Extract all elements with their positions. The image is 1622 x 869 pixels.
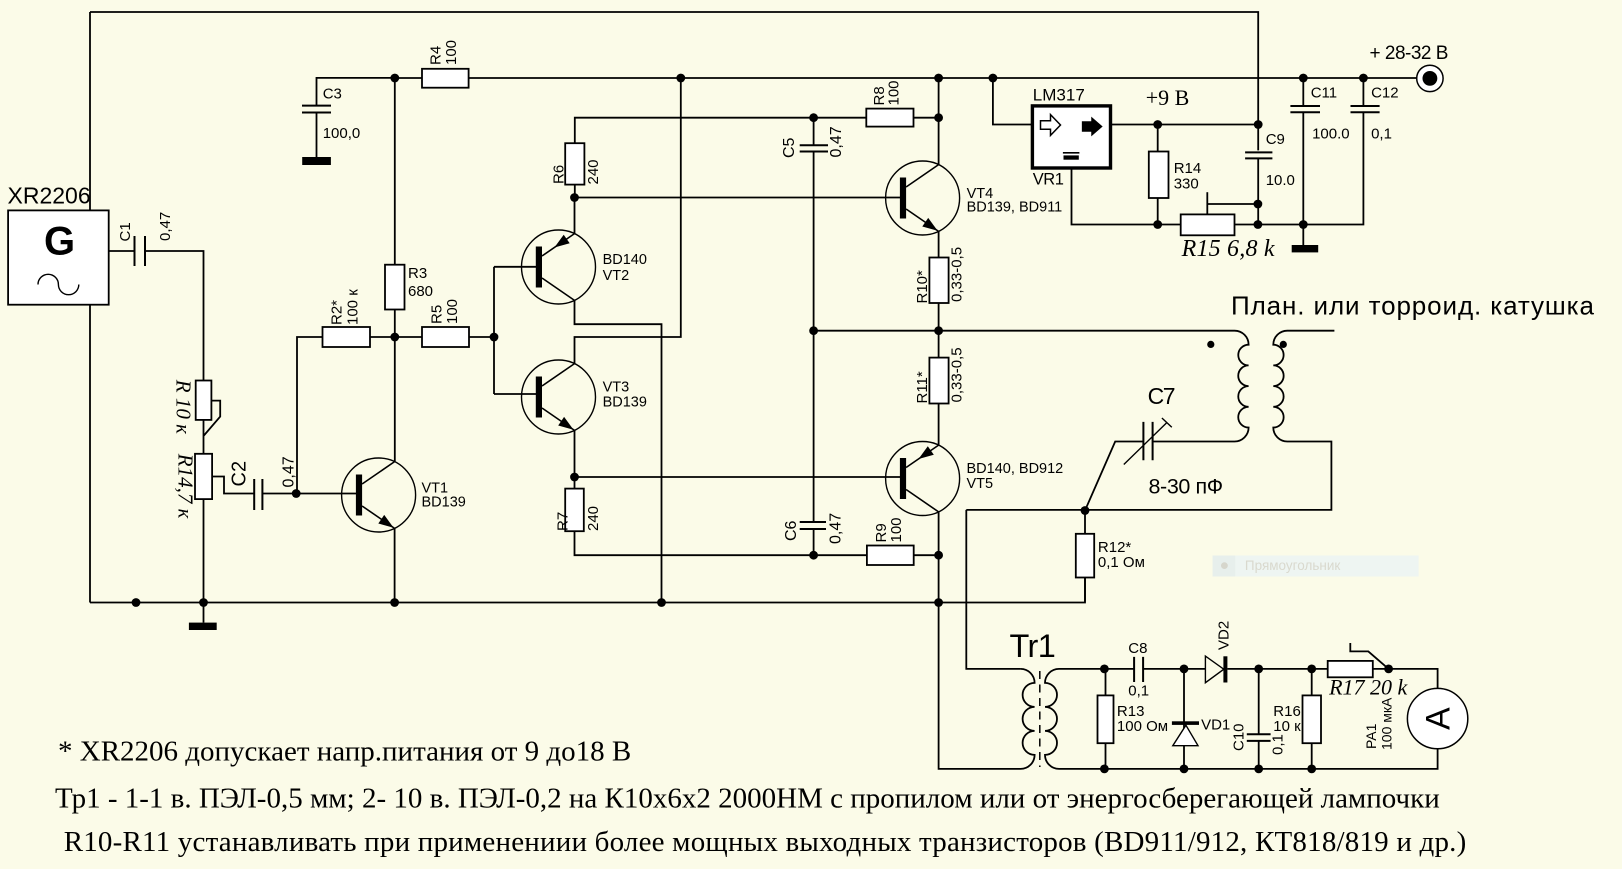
- wire VD1 vertical through symbol: [1183, 669, 1185, 769]
- wire C7 left lead and diagonal to node: [1085, 442, 1143, 511]
- svg-text:VD1: VD1: [1201, 717, 1230, 734]
- svg-text:G: G: [44, 220, 75, 264]
- svg-text:BD140: BD140: [603, 252, 647, 268]
- svg-text:0,1: 0,1: [1128, 682, 1149, 699]
- svg-text:VD2: VD2: [1216, 621, 1233, 650]
- svg-text:C10: C10: [1231, 723, 1248, 751]
- resistor R3 680: [385, 265, 405, 310]
- wire LM317 adj to R15: [1072, 168, 1181, 225]
- wire R8 right to VT4 collector node: [914, 117, 939, 119]
- svg-text:100,0: 100,0: [323, 125, 361, 142]
- wire top supply rail right of R4 to terminal: [469, 77, 1417, 79]
- svg-text:10.0: 10.0: [1266, 172, 1295, 189]
- svg-text:8-30 пФ: 8-30 пФ: [1149, 474, 1223, 498]
- svg-text:C8: C8: [1128, 640, 1147, 657]
- wire R13 bottom: [1105, 743, 1107, 769]
- wire C9 vertical bottom: [1257, 158, 1259, 224]
- wire R17 right to meter: [1373, 669, 1438, 689]
- svg-text:R14,7 к: R14,7 к: [174, 453, 198, 519]
- wire R14 top: [1157, 125, 1159, 152]
- ground top right: [1292, 245, 1319, 252]
- potentiometer R15 6.8k body: [1181, 214, 1235, 235]
- wire VT5 collector vertical to bus: [938, 512, 940, 603]
- transformer Tr1 primary winding: [939, 603, 1035, 769]
- capacitor C3 100,0 plates: [302, 106, 331, 113]
- resistor R2* 100k: [323, 327, 371, 347]
- resistor R10* 0.33-0.5: [929, 258, 948, 304]
- resistor R6 240: [565, 143, 584, 184]
- wire C5 top lead: [813, 118, 815, 146]
- svg-text:100 к: 100 к: [345, 289, 362, 325]
- svg-text:XR2206: XR2206: [8, 183, 91, 209]
- coil secondary winding: [966, 331, 1334, 510]
- svg-text:C5: C5: [781, 137, 798, 158]
- svg-text:R15 6,8 k: R15 6,8 k: [1181, 236, 1275, 262]
- ground bottom left: [189, 623, 217, 630]
- wire R9 right to VT5 collector node: [914, 554, 939, 556]
- transformer Tr1 core dashed line: [1039, 671, 1041, 767]
- wire between pots R and R14,7k: [203, 420, 205, 454]
- wire VT1 emitter to bus: [394, 528, 396, 602]
- wire R15 wiper tick: [1206, 192, 1208, 214]
- svg-text:10 к: 10 к: [1273, 718, 1301, 735]
- wire bottom ground bus: [90, 578, 1085, 603]
- svg-text:LM317: LM317: [1033, 86, 1085, 105]
- wire meter circuit top line C8 left: [1104, 668, 1134, 670]
- svg-text:BD140, BD912: BD140, BD912: [967, 461, 1064, 477]
- svg-text:C1: C1: [117, 222, 134, 241]
- wire VT2 emitter node to VT4 base: [574, 197, 901, 199]
- power input terminal +28-32V: [1417, 65, 1443, 91]
- svg-text:0,1: 0,1: [1270, 734, 1287, 755]
- potentiometer R 10k body: [196, 381, 212, 420]
- transistor VT2 BD140: [522, 230, 596, 304]
- wire VT3 emitter down to node: [574, 430, 576, 477]
- wire C3 top to rail: [317, 78, 395, 106]
- svg-text:+ 28-32 В: + 28-32 В: [1370, 43, 1448, 64]
- svg-text:240: 240: [585, 506, 602, 531]
- wire C12 top: [1362, 78, 1364, 106]
- wire ground stub left: [203, 603, 205, 623]
- svg-text:R4: R4: [428, 46, 445, 65]
- wire output node line to coil: [814, 330, 1180, 332]
- coil primary winding (plan/toroid coil): [1153, 331, 1249, 442]
- wire LM317 input from rail: [993, 78, 1033, 125]
- capacitor C8 0,1 plates: [1134, 657, 1143, 682]
- svg-text:100: 100: [888, 517, 905, 542]
- wire R13 top: [1105, 669, 1107, 696]
- resistor R9 100: [867, 546, 914, 566]
- svg-text:R11*: R11*: [914, 371, 931, 403]
- wire C2 to VT1 base: [262, 493, 356, 495]
- svg-text:C2: C2: [229, 461, 251, 487]
- wire R3 bottom through node to VT1 collector: [394, 310, 396, 462]
- wire VT4 collector: [938, 118, 940, 165]
- svg-text:R10*: R10*: [914, 270, 931, 304]
- potentiometer R17 20k body: [1328, 661, 1373, 677]
- svg-text:100: 100: [444, 299, 461, 324]
- wire R11 top: [938, 331, 940, 358]
- wire ground stub top right: [1302, 225, 1304, 246]
- wire R5 right to VT2/VT3 base branch: [469, 336, 494, 338]
- svg-text:680: 680: [408, 283, 433, 300]
- wire C9 vertical top: [1257, 125, 1259, 151]
- svg-text:План. или торроид. катушка: План. или торроид. катушка: [1231, 291, 1595, 321]
- op-amp U1 XR2206 generator box: [8, 210, 109, 304]
- wire pot R14,7k wiper to C2: [212, 477, 254, 494]
- svg-text:VT2: VT2: [603, 268, 630, 284]
- wire R16 top: [1311, 669, 1313, 696]
- svg-text:100 Ом: 100 Ом: [1117, 718, 1168, 735]
- wire VT2-VT3 base branch vertical: [493, 267, 495, 394]
- transistor VT1 BD139: [342, 458, 416, 532]
- wire top supply rail left of R4: [395, 77, 422, 79]
- svg-text:C3: C3: [323, 85, 342, 102]
- wire R11 bottom to VT5 emitter: [938, 404, 940, 446]
- svg-text:0,47: 0,47: [281, 456, 298, 487]
- capacitor C1 0,47 plates: [135, 236, 146, 266]
- svg-text:100: 100: [443, 40, 460, 65]
- capacitor C9 10.0 plates: [1245, 152, 1272, 158]
- svg-text:240: 240: [585, 159, 602, 184]
- svg-text:A: A: [1420, 707, 1458, 730]
- svg-text:R14: R14: [1174, 160, 1202, 177]
- ghost tooltip rectangle: [1213, 556, 1419, 577]
- svg-text:VT5: VT5: [967, 476, 994, 492]
- wire coil return to Tr1 primary top: [966, 510, 1020, 669]
- resistor R13 100 Ohm: [1098, 695, 1114, 743]
- resistor R5 100: [422, 327, 469, 347]
- wire VT3 emitter node to VT5 base: [574, 476, 900, 478]
- wire R10 bottom to node: [938, 303, 940, 331]
- svg-text:R2*: R2*: [329, 300, 346, 325]
- wire LM317 output +9V line: [1111, 124, 1259, 126]
- wire R12 bottom to bus: [1084, 578, 1086, 602]
- ground below C3: [302, 157, 331, 165]
- svg-text:0,33-0,5: 0,33-0,5: [949, 347, 966, 402]
- wire R17 wiper: [1350, 643, 1388, 669]
- wire pot R wiper: [204, 401, 220, 436]
- svg-text:0,33-0,5: 0,33-0,5: [949, 247, 966, 302]
- wire C11 bottom: [1302, 112, 1304, 224]
- svg-text:R7: R7: [555, 512, 572, 531]
- svg-text:R6: R6: [551, 165, 568, 184]
- wire C8 right to VD2: [1143, 668, 1205, 670]
- wire VT4 collector node up to rail: [938, 78, 940, 118]
- wire R6 bottom to VT2 emitter node: [574, 185, 576, 198]
- svg-text:BD139, BD911: BD139, BD911: [967, 200, 1063, 216]
- wire R15 wiper to C9 node: [1207, 203, 1258, 205]
- svg-text:330: 330: [1174, 176, 1199, 193]
- resistor R8 100: [866, 109, 913, 127]
- svg-text:Тр1 - 1-1 в. ПЭЛ-0,5 мм; 2- 10: Тр1 - 1-1 в. ПЭЛ-0,5 мм; 2- 10 в. ПЭЛ-0,…: [55, 782, 1440, 814]
- svg-text:BD139: BD139: [603, 394, 647, 410]
- wire C11 top: [1302, 78, 1304, 106]
- op-amp VR1 LM317 regulator box: [1032, 106, 1110, 168]
- capacitor C6 0,47 plates: [800, 522, 826, 529]
- wire main vertical x=394.8 top rail to R3: [394, 78, 396, 265]
- wire VT3 collector up to rail via x=680.8: [575, 78, 681, 364]
- capacitor C11 100.0 plates: [1290, 106, 1320, 112]
- resistor R16 10k: [1303, 695, 1322, 743]
- svg-text:R10-R11 устанавливать при прим: R10-R11 устанавливать при применениии бо…: [64, 826, 1467, 858]
- svg-text:R17 20 k: R17 20 k: [1328, 675, 1408, 700]
- svg-text:C6: C6: [783, 520, 800, 541]
- wire to VT2 base: [494, 266, 536, 268]
- svg-text:0,47: 0,47: [828, 126, 845, 157]
- wire C1 left lead: [109, 250, 135, 252]
- transistor VT3 BD139: [522, 360, 596, 434]
- wire R6 top to rail line toward R8: [575, 118, 867, 144]
- svg-text:100 мкА: 100 мкА: [1379, 697, 1395, 750]
- wire VT2 emitter vertical: [574, 198, 576, 234]
- transistor VT4 BD139/BD911: [886, 161, 960, 235]
- potentiometer R14,7k body: [195, 454, 212, 499]
- wire C6 bottom lead: [813, 529, 815, 555]
- svg-text:100.0: 100.0: [1312, 126, 1350, 143]
- wire R2* right to R5 left: [370, 336, 422, 338]
- svg-text:100: 100: [886, 80, 903, 105]
- wire pot R14,7k bottom to bus: [203, 499, 205, 602]
- resistor R4 100: [422, 69, 469, 88]
- wire R14 bottom: [1157, 198, 1159, 225]
- svg-text:Прямоугольник: Прямоугольник: [1245, 558, 1341, 573]
- capacitor C7 8-30pF variable: [1124, 418, 1172, 465]
- svg-text:0,1: 0,1: [1371, 126, 1392, 143]
- wire to VT3 base: [494, 393, 536, 395]
- meter PA1 100uA: [1407, 688, 1467, 748]
- wire C5 bottom long vertical to C6: [813, 152, 815, 523]
- svg-text:C9: C9: [1266, 131, 1285, 148]
- wire meter bottom to bottom line: [1104, 749, 1437, 769]
- capacitor C10 0,1 plates: [1247, 734, 1271, 741]
- svg-text:0,1 Ом: 0,1 Ом: [1098, 554, 1145, 571]
- svg-text:R3: R3: [408, 265, 427, 282]
- resistor R7 240: [565, 489, 584, 532]
- capacitor C2 0,47 plates: [254, 479, 262, 510]
- svg-text:VT3: VT3: [603, 380, 630, 396]
- svg-text:VR1: VR1: [1033, 171, 1064, 189]
- svg-text:0,47: 0,47: [157, 212, 174, 241]
- capacitor C12 0,1 plates: [1351, 106, 1380, 112]
- wire VT2 collector to x=661.5 drop: [575, 300, 662, 602]
- svg-text:C7: C7: [1148, 383, 1175, 409]
- diode VD2: [1205, 656, 1227, 683]
- svg-text:C12: C12: [1371, 85, 1399, 102]
- coil polarity dots: [1207, 341, 1214, 348]
- svg-text:C11: C11: [1311, 85, 1337, 102]
- wire C10 top: [1258, 669, 1260, 734]
- diode VD1 zener: [1172, 721, 1199, 745]
- wire C1 right lead to pot chain: [145, 251, 204, 381]
- svg-text:R 10 к: R 10 к: [171, 379, 195, 434]
- wire node C2/R2* branch vertical: [297, 337, 323, 494]
- wire XR2206 bottom to ground bus: [89, 305, 91, 603]
- svg-text:PA1: PA1: [1363, 723, 1379, 749]
- wire R7 top: [574, 477, 576, 489]
- svg-text:+9 В: +9 В: [1146, 85, 1190, 110]
- wire C10 bottom: [1258, 741, 1260, 769]
- resistor R12* 0.1 Ohm: [1076, 534, 1094, 578]
- svg-text:Tr1: Tr1: [1010, 628, 1056, 664]
- wire VT4 emitter to R10: [938, 231, 940, 257]
- transistor VT5 BD140/BD912: [886, 442, 960, 516]
- svg-text:* XR2206 допускает напр.питани: * XR2206 допускает напр.питания от 9 до1…: [58, 736, 631, 768]
- capacitor C5 0,47 plates: [800, 145, 828, 151]
- transformer Tr1 secondary winding: [1045, 669, 1104, 769]
- wire R12 top: [1084, 511, 1086, 534]
- wire R15 right to C12 bottom: [1235, 112, 1364, 224]
- wire C3 bottom to ground: [316, 113, 318, 158]
- svg-text:BD139: BD139: [422, 494, 466, 510]
- wire VD2 cathode to R17: [1227, 668, 1327, 670]
- svg-text:0,47: 0,47: [828, 513, 845, 544]
- wire top border feedback from +9V to XR2206: [90, 12, 1258, 125]
- wire left drop to XR2206 box: [89, 12, 91, 210]
- wire R7 bottom to R9 left: [575, 531, 867, 555]
- svg-text:R5: R5: [429, 305, 446, 324]
- resistor R11* 0.33-0.5: [929, 358, 948, 404]
- wire R16 bottom: [1311, 743, 1313, 769]
- resistor R14 330: [1149, 152, 1169, 199]
